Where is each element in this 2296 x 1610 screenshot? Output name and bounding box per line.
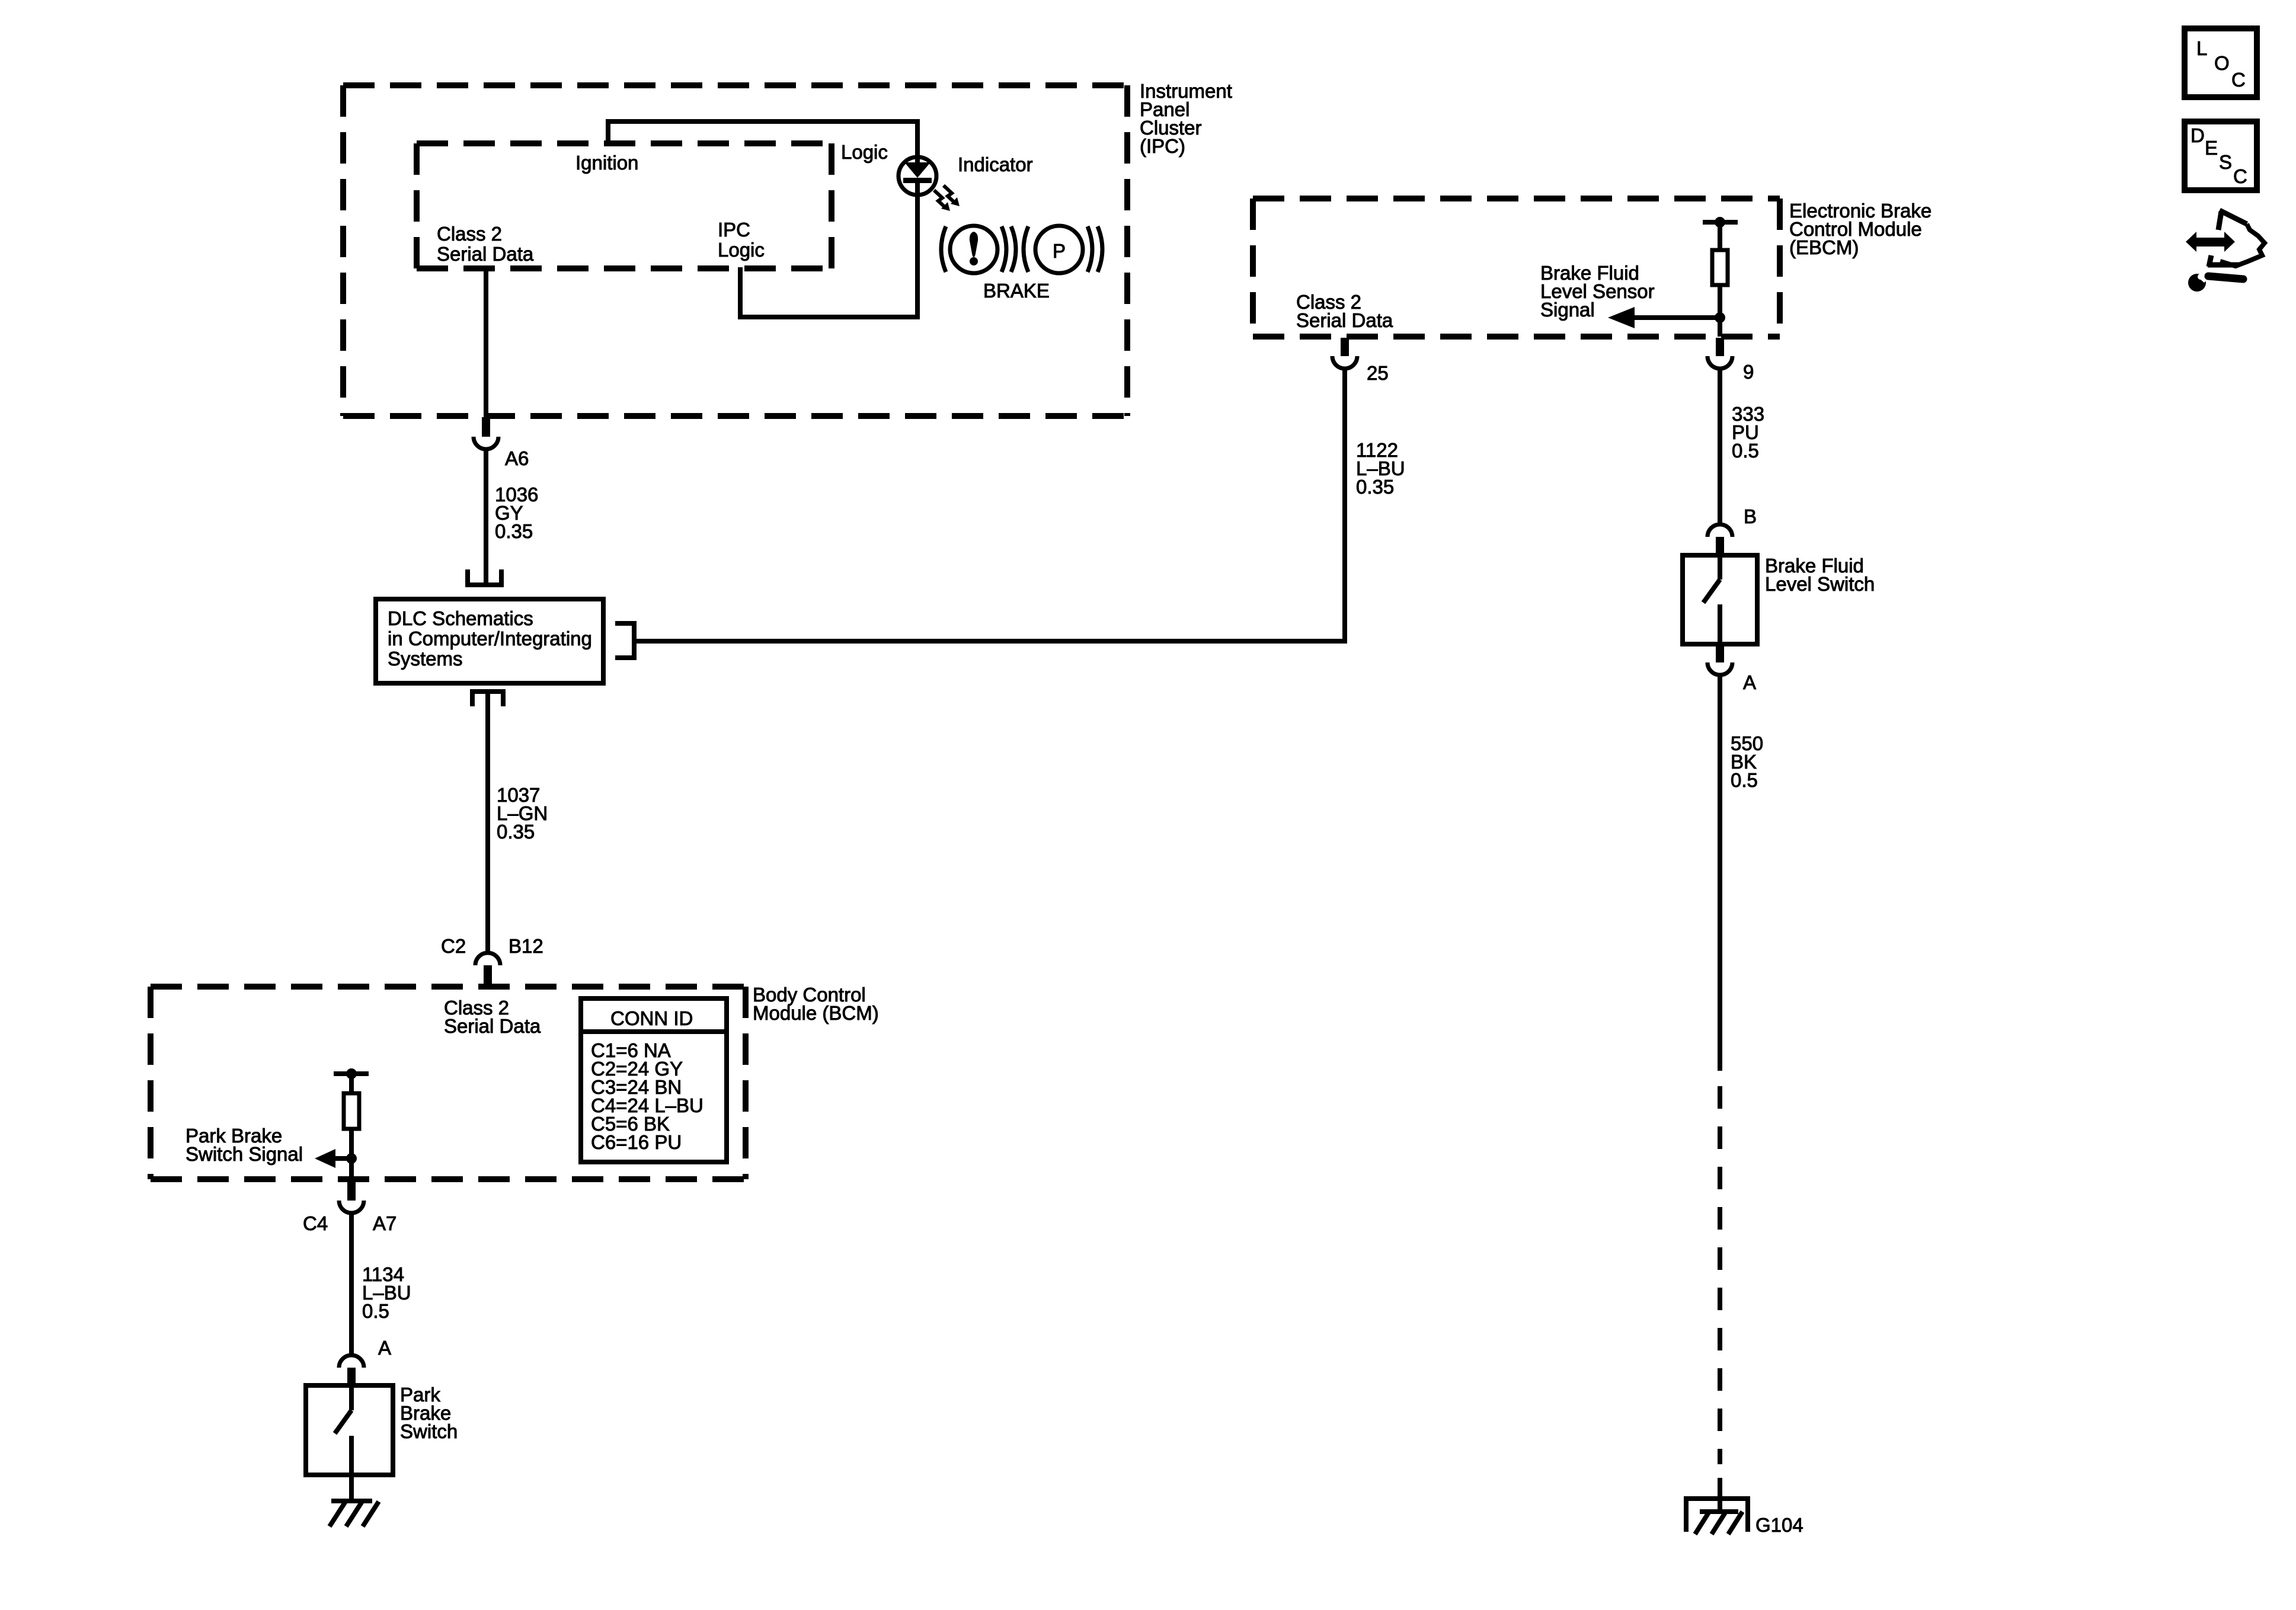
Brake Fluid Level Sensor Signal label — [1540, 262, 1655, 321]
wire label 550 BK 0.5 — [1731, 732, 1763, 791]
LED indicator U1 — [898, 155, 936, 196]
BCM label — [753, 984, 879, 1024]
wire 1037 — [485, 692, 490, 952]
svg-text:G104: G104 — [1755, 1514, 1803, 1536]
svg-text:0.35: 0.35 — [1356, 476, 1394, 498]
svg-text:0.5: 0.5 — [1731, 769, 1758, 791]
svg-text:Switch: Switch — [400, 1420, 458, 1442]
svg-text:P: P — [1053, 240, 1066, 262]
wire label 1037 L-GN 0.35 — [497, 784, 548, 843]
svg-text:Indicator: Indicator — [958, 153, 1033, 175]
LOC icon — [2185, 28, 2257, 97]
connector C2 B12 — [475, 953, 500, 988]
IPC Logic label — [718, 219, 765, 261]
svg-text:A: A — [1743, 671, 1756, 693]
svg-text:CONN ID: CONN ID — [610, 1007, 693, 1029]
IPC dashed box — [343, 85, 1127, 416]
svg-text:C: C — [2231, 69, 2246, 91]
svg-text:BRAKE: BRAKE — [983, 280, 1050, 302]
brake fluid pull-up resistor — [1703, 217, 1738, 337]
service information icon — [2186, 210, 2265, 292]
off-page connector (top of DLC) — [468, 569, 501, 585]
svg-text:E: E — [2205, 137, 2218, 159]
Class 2 Serial Data label (EBCM) — [1296, 291, 1393, 331]
wire Ignition to LED to IPC Logic loop — [608, 121, 917, 317]
svg-text:(IPC): (IPC) — [1140, 135, 1185, 157]
DLC Schematics box — [376, 599, 603, 683]
connector 25 — [1332, 338, 1357, 369]
svg-text:9: 9 — [1743, 361, 1754, 383]
svg-text:A: A — [378, 1337, 391, 1359]
BCM dashed box — [151, 987, 746, 1179]
IPC inner logic dashed box — [417, 143, 832, 268]
wire label 333 PU 0.5 — [1732, 403, 1764, 462]
EBCM label — [1789, 200, 1932, 258]
svg-text:0.35: 0.35 — [497, 821, 535, 843]
svg-text:Module (BCM): Module (BCM) — [753, 1002, 879, 1024]
svg-text:C2: C2 — [441, 935, 466, 957]
wire 333 PU — [1718, 369, 1722, 524]
Brake Fluid Level Switch label — [1765, 555, 1875, 595]
wire label 1122 L-BU 0.35 — [1356, 439, 1405, 498]
svg-text:C6=16 PU: C6=16 PU — [591, 1131, 682, 1153]
svg-text:Serial Data: Serial Data — [1296, 309, 1393, 331]
svg-text:0.5: 0.5 — [362, 1300, 389, 1322]
connector A (brake fluid switch) — [1707, 645, 1732, 675]
svg-text:B: B — [1744, 505, 1757, 527]
off-page connector (right of DLC) — [615, 623, 634, 658]
svg-text:A6: A6 — [505, 447, 529, 469]
brake warning indicator icon — [941, 226, 1016, 273]
svg-text:Ignition: Ignition — [575, 152, 638, 174]
ground (park brake switch) — [330, 1475, 379, 1526]
svg-text:Signal: Signal — [1540, 299, 1595, 321]
DLC label — [388, 607, 592, 670]
ground G104 — [1686, 1499, 1748, 1534]
connector C4 A7 — [339, 1180, 364, 1213]
IPC label — [1140, 80, 1232, 157]
svg-text:0.35: 0.35 — [495, 520, 533, 542]
svg-text:DLC Schematics: DLC Schematics — [388, 607, 533, 629]
wire 1134 — [349, 1213, 354, 1355]
wire DLC to EBCM connector 25 — [634, 369, 1345, 641]
svg-text:Class 2: Class 2 — [437, 223, 502, 245]
Class 2 Serial Data label (IPC) — [437, 223, 534, 265]
svg-text:0.5: 0.5 — [1732, 440, 1759, 462]
connector 9 — [1707, 338, 1732, 369]
connector A6 — [474, 417, 498, 449]
DESC icon — [2185, 121, 2257, 190]
wire stub to ground — [1718, 1478, 1722, 1510]
connector B — [1707, 524, 1732, 555]
svg-text:Serial Data: Serial Data — [437, 243, 534, 265]
svg-text:Level Switch: Level Switch — [1765, 573, 1875, 595]
dashed wire to G104 — [1718, 1086, 1722, 1464]
Class 2 Serial Data label (BCM) — [444, 997, 541, 1037]
CONN ID table — [581, 998, 727, 1162]
wire label 1036 GY 0.35 — [495, 484, 538, 542]
park brake pull-up resistor — [334, 1068, 369, 1180]
svg-text:(EBCM): (EBCM) — [1789, 236, 1859, 258]
svg-text:Serial Data: Serial Data — [444, 1015, 541, 1037]
svg-text:C4: C4 — [303, 1212, 328, 1234]
svg-text:D: D — [2191, 124, 2205, 146]
Park Brake Switch Signal label — [186, 1125, 303, 1165]
svg-text:Logic: Logic — [841, 141, 888, 163]
svg-text:Systems: Systems — [388, 648, 463, 670]
svg-text:B12: B12 — [509, 935, 543, 957]
LED light arrows — [934, 185, 960, 211]
svg-text:S: S — [2219, 151, 2232, 173]
svg-text:25: 25 — [1367, 362, 1389, 384]
svg-text:Logic: Logic — [718, 239, 765, 261]
svg-text:O: O — [2214, 52, 2230, 74]
svg-text:A7: A7 — [373, 1212, 396, 1234]
wire 1036 — [484, 449, 488, 582]
Park Brake Switch S1 — [306, 1385, 393, 1475]
wire Class 2 Serial Data (IPC) — [484, 268, 488, 416]
park brake indicator icon — [1024, 226, 1102, 273]
brake fluid level sensor signal arrow — [1608, 307, 1725, 328]
svg-text:in Computer/Integrating: in Computer/Integrating — [388, 628, 592, 649]
off-page connector (bottom of DLC) — [472, 692, 503, 706]
wire 550 BK — [1718, 675, 1722, 1071]
EBCM dashed box — [1253, 199, 1780, 337]
svg-text:L: L — [2196, 37, 2207, 59]
wire label 1134 L-BU 0.5 — [362, 1263, 411, 1322]
svg-text:Switch Signal: Switch Signal — [186, 1143, 303, 1165]
connector A (park brake switch) — [339, 1355, 364, 1385]
svg-text:C: C — [2233, 165, 2247, 187]
Brake Fluid Level Switch S2 — [1683, 555, 1757, 644]
park brake switch signal arrow — [315, 1149, 357, 1168]
svg-text:IPC: IPC — [718, 219, 750, 241]
Park Brake Switch label — [400, 1384, 458, 1442]
